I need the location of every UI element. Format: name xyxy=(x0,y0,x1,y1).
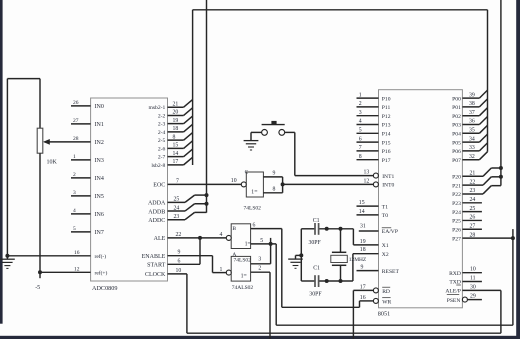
svg-text:2-4: 2-4 xyxy=(158,130,166,136)
svg-text:START: START xyxy=(147,263,165,269)
svg-text:2: 2 xyxy=(73,172,76,178)
svg-text:31: 31 xyxy=(360,223,366,229)
svg-text:P11: P11 xyxy=(382,105,391,111)
svg-text:10: 10 xyxy=(176,268,182,274)
svg-text:12: 12 xyxy=(364,178,370,184)
svg-text:P25: P25 xyxy=(452,219,461,225)
svg-text:IN0: IN0 xyxy=(95,104,104,110)
svg-text:5: 5 xyxy=(73,226,76,232)
svg-text:WR: WR xyxy=(382,299,391,305)
svg-text:11: 11 xyxy=(470,276,476,282)
svg-text:P10: P10 xyxy=(382,96,391,102)
svg-text:P26: P26 xyxy=(452,227,461,233)
svg-text:B: B xyxy=(232,226,236,232)
svg-text:P13: P13 xyxy=(382,123,391,129)
svg-text:30: 30 xyxy=(470,284,476,290)
svg-text:30PF: 30PF xyxy=(309,240,322,246)
svg-text:33: 33 xyxy=(469,145,475,151)
svg-text:15: 15 xyxy=(173,143,179,149)
svg-text:10: 10 xyxy=(231,178,237,184)
svg-text:5: 5 xyxy=(359,128,362,134)
svg-text:4: 4 xyxy=(220,232,223,238)
svg-text:IN6: IN6 xyxy=(95,212,104,218)
svg-text:lsb2-8: lsb2-8 xyxy=(151,163,165,169)
svg-text:37: 37 xyxy=(469,110,475,116)
svg-text:-5: -5 xyxy=(35,285,40,291)
svg-text:1=: 1= xyxy=(241,274,247,280)
svg-text:P15: P15 xyxy=(382,140,391,146)
svg-text:8: 8 xyxy=(359,154,362,160)
svg-text:ALE/P: ALE/P xyxy=(445,289,461,295)
svg-text:P23: P23 xyxy=(452,201,461,207)
svg-text:39: 39 xyxy=(469,92,475,98)
svg-text:7: 7 xyxy=(359,145,362,151)
svg-text:PSEN: PSEN xyxy=(447,298,461,304)
svg-text:29: 29 xyxy=(470,294,476,300)
svg-text:EOC: EOC xyxy=(153,183,165,189)
svg-text:30PF: 30PF xyxy=(309,291,322,297)
svg-text:27: 27 xyxy=(73,118,79,124)
svg-text:23: 23 xyxy=(174,214,180,220)
svg-text:17: 17 xyxy=(173,159,179,165)
svg-text:INT1: INT1 xyxy=(382,174,394,180)
svg-text:34: 34 xyxy=(469,136,475,142)
svg-text:6: 6 xyxy=(253,223,256,229)
svg-text:15: 15 xyxy=(359,200,365,206)
svg-text:1: 1 xyxy=(359,92,362,98)
svg-text:22: 22 xyxy=(176,232,182,238)
svg-text:P17: P17 xyxy=(382,158,391,164)
svg-text:P05: P05 xyxy=(452,140,461,146)
svg-text:ENABLE: ENABLE xyxy=(142,254,166,260)
svg-text:P07: P07 xyxy=(452,158,461,164)
svg-text:17: 17 xyxy=(360,284,366,290)
svg-text:19: 19 xyxy=(360,239,366,245)
svg-text:16: 16 xyxy=(360,295,366,301)
svg-text:74ALS02: 74ALS02 xyxy=(232,285,254,291)
svg-text:P24: P24 xyxy=(452,210,461,216)
svg-text:IN7: IN7 xyxy=(95,230,104,236)
svg-text:P01: P01 xyxy=(452,105,461,111)
svg-text:T1: T1 xyxy=(382,204,388,210)
svg-text:P20: P20 xyxy=(452,175,461,181)
svg-text:2-7: 2-7 xyxy=(158,155,166,161)
svg-text:P00: P00 xyxy=(452,96,461,102)
svg-text:X1: X1 xyxy=(382,243,389,249)
svg-text:RXD: RXD xyxy=(449,271,461,277)
svg-text:25: 25 xyxy=(174,197,180,203)
svg-text:21: 21 xyxy=(173,101,179,107)
svg-text:1=: 1= xyxy=(245,242,251,248)
svg-text:P22: P22 xyxy=(452,192,461,198)
svg-text:14: 14 xyxy=(173,151,179,157)
svg-text:X2: X2 xyxy=(382,252,389,258)
svg-text:35: 35 xyxy=(469,128,475,134)
svg-text:3: 3 xyxy=(73,190,76,196)
svg-text:18: 18 xyxy=(360,247,366,253)
svg-text:14: 14 xyxy=(359,209,365,215)
svg-text:ADDC: ADDC xyxy=(148,218,165,224)
svg-text:T0: T0 xyxy=(382,213,388,219)
svg-text:10: 10 xyxy=(470,267,476,273)
svg-text:3: 3 xyxy=(359,110,362,116)
svg-text:1: 1 xyxy=(220,267,223,273)
svg-text:20: 20 xyxy=(173,110,179,116)
svg-text:P27: P27 xyxy=(452,236,461,242)
svg-text:9: 9 xyxy=(273,171,276,177)
svg-text:4: 4 xyxy=(73,208,76,214)
svg-text:2: 2 xyxy=(258,265,261,271)
svg-text:8051: 8051 xyxy=(378,311,390,318)
svg-text:2: 2 xyxy=(359,101,362,107)
svg-text:P02: P02 xyxy=(452,114,461,120)
svg-text:1=: 1= xyxy=(251,190,257,196)
svg-text:C1: C1 xyxy=(313,218,320,224)
svg-text:INT0: INT0 xyxy=(382,183,394,189)
svg-text:C: C xyxy=(245,170,249,176)
svg-text:RD: RD xyxy=(382,289,390,295)
svg-text:38: 38 xyxy=(469,101,475,107)
svg-text:ref(+): ref(+) xyxy=(95,270,108,277)
svg-text:12MHZ: 12MHZ xyxy=(349,257,366,263)
svg-text:9: 9 xyxy=(361,265,364,271)
svg-text:P21: P21 xyxy=(452,183,461,189)
svg-text:ADDB: ADDB xyxy=(148,209,165,215)
svg-text:CLOCK: CLOCK xyxy=(145,272,166,278)
svg-text:P06: P06 xyxy=(452,149,461,155)
svg-text:IN4: IN4 xyxy=(95,176,104,182)
svg-text:EA/VP: EA/VP xyxy=(382,229,398,235)
svg-text:13: 13 xyxy=(364,170,370,176)
svg-text:2-2: 2-2 xyxy=(158,113,166,119)
svg-text:2-5: 2-5 xyxy=(158,138,166,144)
svg-text:P12: P12 xyxy=(382,114,391,120)
svg-text:1: 1 xyxy=(73,154,76,160)
svg-text:12: 12 xyxy=(74,266,80,272)
svg-text:2-6: 2-6 xyxy=(158,146,166,152)
svg-text:ref(-): ref(-) xyxy=(95,253,107,260)
svg-text:36: 36 xyxy=(469,119,475,125)
svg-text:RESET: RESET xyxy=(382,269,400,275)
svg-text:P04: P04 xyxy=(452,132,461,138)
svg-text:ADDA: ADDA xyxy=(148,201,166,207)
svg-text:IN2: IN2 xyxy=(95,140,104,146)
svg-text:ALE: ALE xyxy=(154,236,166,242)
svg-text:P03: P03 xyxy=(452,123,461,129)
svg-text:P16: P16 xyxy=(382,149,391,155)
svg-text:19: 19 xyxy=(173,118,179,124)
svg-text:10K: 10K xyxy=(47,160,58,166)
svg-text:IN1: IN1 xyxy=(95,122,104,128)
svg-text:IN5: IN5 xyxy=(95,194,104,200)
svg-text:74LS02: 74LS02 xyxy=(244,205,262,211)
svg-text:74LS02: 74LS02 xyxy=(234,258,252,264)
svg-text:16: 16 xyxy=(74,250,80,256)
svg-text:8: 8 xyxy=(273,187,276,193)
svg-text:32: 32 xyxy=(469,154,475,160)
svg-text:8: 8 xyxy=(173,134,176,140)
svg-text:6: 6 xyxy=(178,258,181,264)
svg-text:9: 9 xyxy=(178,250,181,256)
svg-text:4: 4 xyxy=(359,119,362,125)
svg-text:6: 6 xyxy=(359,136,362,142)
svg-text:7: 7 xyxy=(176,178,179,184)
svg-text:5: 5 xyxy=(260,238,263,244)
svg-text:24: 24 xyxy=(174,205,180,211)
svg-text:IN3: IN3 xyxy=(95,158,104,164)
svg-text:msb2-1: msb2-1 xyxy=(149,105,166,111)
svg-text:2-3: 2-3 xyxy=(158,122,166,128)
svg-text:ADC0809: ADC0809 xyxy=(92,285,117,292)
svg-text:26: 26 xyxy=(73,100,79,106)
svg-text:3: 3 xyxy=(258,257,261,263)
svg-text:18: 18 xyxy=(173,126,179,132)
svg-text:P14: P14 xyxy=(382,132,391,138)
svg-text:C1: C1 xyxy=(313,265,320,271)
